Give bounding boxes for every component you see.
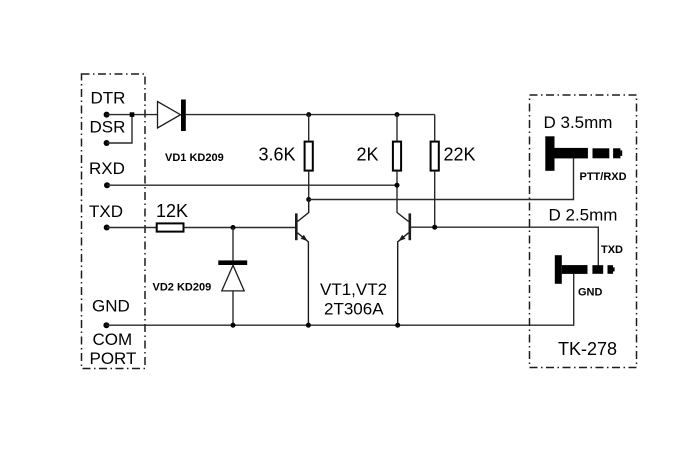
label VD1 KD209 [165,152,224,164]
label TK-278 [558,339,617,359]
junction VD2 top [231,225,236,230]
label TXD [89,202,123,221]
svg-text:3.6K: 3.6K [259,145,296,165]
label 12K [156,201,188,221]
resistor R 22K [431,115,439,228]
label GND [92,297,130,316]
label 22K [444,145,476,165]
svg-text:TXD: TXD [89,202,123,221]
junction 22K / VT2 base [432,225,437,230]
junction GND / VD2 [231,323,236,328]
wire 12K to VT1 base [184,227,297,229]
DSR pin dot [104,140,110,146]
svg-text:DSR: DSR [90,118,126,137]
junction VT1 collector node [306,197,311,202]
diode VD1 [158,100,186,132]
label RXD [89,159,125,178]
label PTT/RXD [580,171,627,183]
GND pin dot [103,322,109,328]
svg-text:VT1,VT2: VT1,VT2 [320,280,387,299]
junction DTR/DSR [130,112,135,117]
svg-text:VD1 KD209: VD1 KD209 [165,152,224,164]
wire DSR to DTR junction [107,115,132,143]
svg-text:D 2.5mm: D 2.5mm [549,206,618,225]
wire GND bus [106,274,573,325]
svg-text:2K: 2K [357,145,379,165]
wire RXD to 2K [107,184,397,186]
svg-text:RXD: RXD [89,159,125,178]
DTR pin dot [104,112,110,118]
resistor R 2K [393,115,401,213]
transistor VT2 [397,213,410,326]
svg-text:2T306A: 2T306A [324,300,384,319]
svg-text:D 3.5mm: D 3.5mm [544,113,613,132]
svg-text:PORT: PORT [90,349,137,368]
TXD pin dot [104,225,110,231]
jack 2.5mm plug [555,255,615,284]
diode VD2 [218,228,247,326]
svg-text:GND: GND [578,287,603,299]
label 2T306A [324,300,384,319]
wire TXD to 12K [107,227,157,229]
wire VT1 collector to 3.5mm jack [309,158,574,199]
transistor VT1 [296,200,308,326]
label VT1,VT2 [320,280,387,299]
label VD2 KD209 [153,282,212,294]
label GND jack pin [578,287,603,299]
junction GND / VT1 emitter [306,323,311,328]
svg-text:COM: COM [93,330,133,349]
svg-text:TXD: TXD [601,244,623,256]
svg-text:VD2 KD209: VD2 KD209 [153,282,212,294]
junction top of 3.6K [306,112,311,117]
jack 3.5mm plug [545,136,622,171]
label TXD jack pin [601,244,623,256]
TK-278 dash-dot box [530,95,637,368]
svg-text:TK-278: TK-278 [558,339,617,359]
junction top of 2K [395,112,400,117]
resistor R 3.6K [305,115,313,200]
junction GND / VT2 emitter [395,323,400,328]
svg-text:GND: GND [92,297,130,316]
label 3.6K [259,145,296,165]
label DTR [91,89,126,108]
svg-text:12K: 12K [156,201,188,221]
svg-text:22K: 22K [444,145,476,165]
wire DTR to VD1 [107,114,158,116]
label PORT [90,349,137,368]
svg-text:DTR: DTR [91,89,126,108]
svg-text:PTT/RXD: PTT/RXD [580,171,627,183]
wire VT2 base to 2.5mm jack [411,227,598,266]
label D 2.5mm [549,206,618,225]
label D 3.5mm [544,113,613,132]
resistor R 12K [157,223,184,231]
RXD pin dot [104,182,110,188]
junction RXD / 2K [395,183,400,188]
label COM [93,330,133,349]
label DSR [90,118,126,137]
COM PORT dash-dot box [82,74,146,369]
label 2K [357,145,379,165]
wire VD1 to 22K corner [186,114,435,116]
